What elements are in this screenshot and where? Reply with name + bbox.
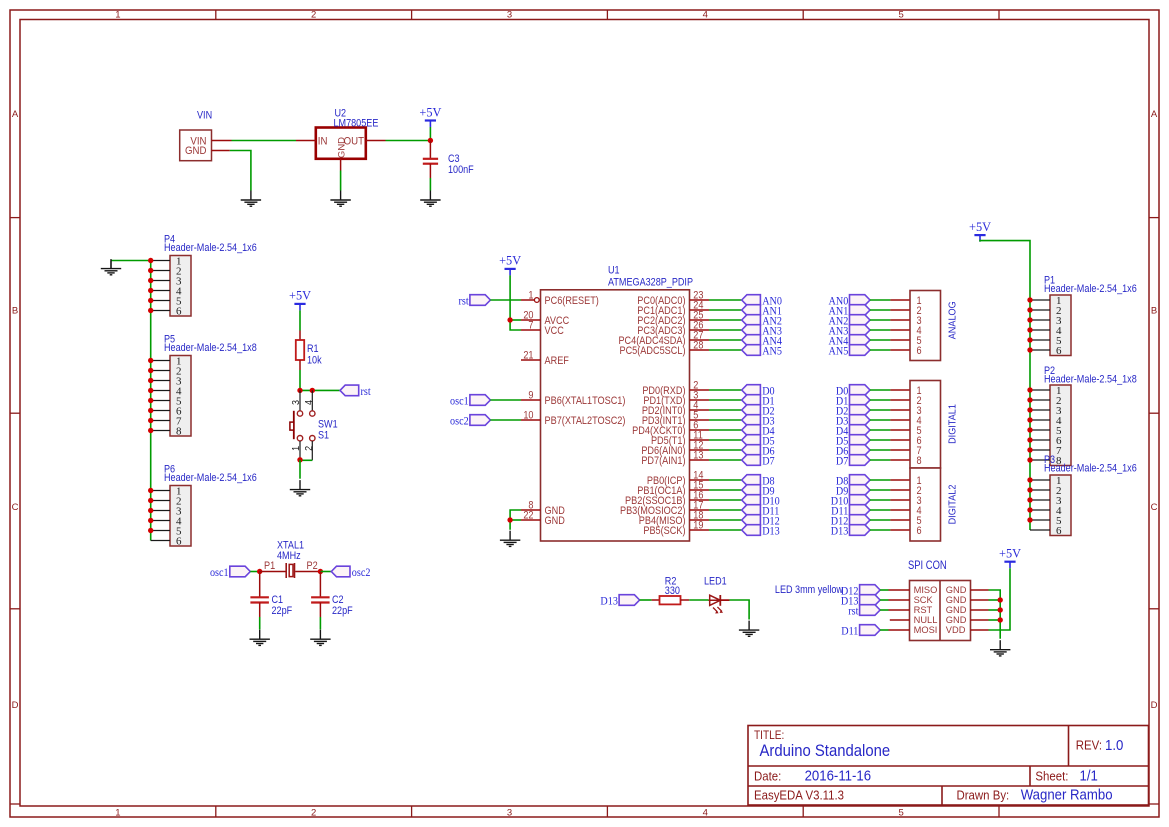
wire left header bus [150, 261, 152, 541]
pin stub R2 left [652, 599, 660, 601]
svg-text:ATMEGA328P_PDIP: ATMEGA328P_PDIP [608, 277, 693, 289]
svg-text:osc1: osc1 [450, 395, 469, 408]
pin stub AN1 connector [890, 309, 910, 311]
svg-text:6: 6 [917, 345, 922, 357]
wire AVCC branch [510, 319, 521, 321]
net flag D3 (to connector) [836, 415, 870, 428]
pin stub D1 connector [890, 399, 910, 401]
svg-text:RST: RST [914, 605, 933, 615]
svg-text:GND: GND [185, 144, 207, 157]
connector SPI CON [910, 581, 971, 641]
pin 15 PB1(OC1A) [637, 480, 709, 497]
svg-text:SPI CON: SPI CON [908, 559, 947, 572]
net flag D10 (to connector) [831, 495, 870, 508]
svg-text:D: D [12, 700, 19, 711]
capacitor C1 [250, 597, 269, 602]
title block [748, 726, 1149, 806]
svg-text:D13: D13 [831, 525, 849, 538]
svg-text:Header-Male-2.54_1x8: Header-Male-2.54_1x8 [1044, 374, 1137, 386]
svg-text:PB5(SCK): PB5(SCK) [643, 525, 685, 537]
column numbers bottom [115, 807, 903, 818]
wire P4 pin1 to ground [111, 260, 151, 262]
pin stub AN3 connector [890, 329, 910, 331]
connector ANALOG [910, 291, 941, 361]
svg-text:DIGITAL1: DIGITAL1 [946, 404, 957, 444]
svg-text:VDD: VDD [946, 625, 966, 635]
svg-text:rst: rst [361, 386, 371, 399]
pin stub RST [889, 609, 910, 611]
net flag D2 (from U1) [742, 405, 775, 418]
svg-text:3: 3 [507, 807, 512, 818]
junction crystal P1 [257, 569, 262, 574]
svg-text:LED 3mm yellow: LED 3mm yellow [775, 584, 844, 596]
wire +5V header bus [980, 241, 1030, 530]
wire AN2 to connector [870, 319, 890, 321]
wire node to C3 [429, 141, 431, 159]
net flag AN4 (to connector) [829, 335, 870, 348]
svg-text:1: 1 [528, 290, 533, 302]
svg-text:21: 21 [523, 350, 534, 362]
ground SPI [990, 640, 1010, 656]
wire AN4 to connector [870, 339, 890, 341]
svg-text:Sheet:: Sheet: [1035, 769, 1068, 784]
net flag osc2 (crystal) [331, 566, 370, 579]
pin 28 PC5(ADC5SCL) [619, 340, 709, 357]
wire U1 to net D12 [709, 519, 742, 521]
svg-text:VCC: VCC [545, 325, 564, 337]
junctions P5 pins [148, 358, 153, 433]
svg-text:NULL: NULL [914, 615, 938, 625]
wire D0 to connector [870, 389, 890, 391]
net flag D5 (to connector) [836, 435, 870, 448]
wire P1 to crystal [260, 571, 286, 573]
pin 13 PD7(AIN1) [641, 450, 709, 467]
net flag D12 (to connector) [831, 515, 870, 528]
net flag D4 (from U1) [742, 425, 776, 438]
pin stub R2 right [681, 599, 690, 601]
svg-text:MOSI: MOSI [914, 625, 938, 635]
svg-text:3: 3 [507, 9, 512, 20]
wire D3 to connector [870, 419, 890, 421]
net flag AN1 (to connector) [829, 305, 870, 318]
wire U1 to net D9 [709, 489, 742, 491]
wire R2 to LED1 [689, 599, 708, 601]
svg-text:D13: D13 [762, 525, 780, 538]
svg-text:D13: D13 [600, 595, 618, 608]
svg-text:P2: P2 [307, 560, 319, 572]
wire GND22 branch [510, 519, 521, 521]
net flag AN5 (to connector) [829, 345, 870, 358]
header P3 [1030, 475, 1071, 537]
net flag AN0 (to connector) [829, 295, 870, 308]
row ticks right [1149, 218, 1159, 804]
wire U1 to net D10 [709, 499, 742, 501]
svg-text:8: 8 [917, 455, 922, 467]
ground C3 [420, 191, 440, 207]
wire U1 to net AN1 [709, 309, 742, 311]
wire U1 to net AN2 [709, 319, 742, 321]
svg-text:C: C [1151, 502, 1158, 513]
svg-text:VIN: VIN [197, 110, 212, 122]
pin stub MOSI [889, 629, 910, 631]
junctions P3 pins [1027, 477, 1032, 522]
svg-text:10k: 10k [307, 355, 322, 367]
svg-text:+5V: +5V [999, 546, 1021, 560]
svg-text:osc1: osc1 [210, 567, 229, 580]
pin U2 IN stub [296, 140, 316, 142]
svg-text:4: 4 [303, 400, 315, 405]
wire SPI GND bus [989, 590, 1001, 639]
net flag D10 (from U1) [742, 495, 780, 508]
junctions P2 pins [1027, 387, 1032, 462]
svg-text:GND: GND [946, 585, 967, 595]
pin 19 PB5(SCK) [643, 520, 709, 537]
net flag AN4 (from U1) [742, 335, 783, 348]
wire U1 to net D4 [709, 429, 742, 431]
pin stub NULL [890, 619, 910, 621]
wire R1 to rst node [299, 360, 301, 370]
junction rst node [297, 388, 302, 393]
net flag osc1 (U1) [450, 395, 490, 408]
power +5V (U1 AVCC) [499, 253, 521, 275]
wire SPI GND row 620 [989, 619, 1001, 621]
net flag D12 (from U1) [742, 515, 780, 528]
svg-text:4: 4 [703, 807, 708, 818]
switch SW1 [290, 390, 315, 460]
wire +5V to node [429, 127, 431, 141]
svg-text:2: 2 [311, 807, 316, 818]
regulator U2 [316, 128, 366, 159]
column numbers top [115, 9, 903, 20]
svg-text:B: B [12, 306, 18, 317]
junctions P4 pins [148, 258, 153, 313]
wire osc1 to P1 node [250, 571, 259, 573]
svg-text:AN5: AN5 [762, 345, 782, 358]
wire U1 to net D7 [709, 459, 742, 461]
row letters left [12, 109, 19, 711]
crystal XTAL1 [286, 563, 294, 578]
svg-text:1: 1 [115, 807, 120, 818]
svg-text:D11: D11 [841, 625, 858, 638]
net flag D6 (to connector) [836, 445, 870, 458]
svg-text:A: A [12, 109, 19, 120]
pin stub D5 connector [890, 439, 910, 441]
svg-text:GND: GND [337, 137, 348, 158]
wire +5V to R1 [299, 310, 301, 330]
svg-text:19: 19 [693, 520, 704, 532]
pin 11 PD5(T1) [651, 430, 709, 447]
wire SW1 pin2 to pin1 node [300, 459, 312, 461]
svg-text:6: 6 [1056, 525, 1062, 537]
svg-text:6: 6 [176, 305, 182, 317]
net flag D13 (SPI) [841, 595, 880, 608]
svg-text:2: 2 [303, 446, 315, 451]
connector DIGITAL2 [910, 468, 941, 541]
svg-text:IN: IN [318, 135, 328, 148]
wire U1 to net D13 [709, 529, 742, 531]
wire D2 to connector [870, 409, 890, 411]
pin 24 PC1(ADC1) [637, 300, 709, 317]
svg-text:5: 5 [898, 9, 903, 20]
wire D7 to connector [870, 459, 890, 461]
net flag D8 (to connector) [836, 475, 870, 488]
wire rst to RST [880, 609, 888, 611]
svg-text:GND: GND [946, 605, 967, 615]
svg-text:28: 28 [693, 340, 704, 352]
wire C3 to ground [429, 164, 431, 178]
net flag D1 (to connector) [836, 395, 870, 408]
pin stub D13 connector [890, 529, 910, 531]
wire C1 to ground [259, 603, 261, 618]
wire SW1 to ground [299, 460, 301, 479]
wire U1 to net AN5 [709, 349, 742, 351]
column ticks top [216, 10, 999, 20]
pin 17 PB3(MOSIOC2) [620, 500, 709, 517]
pin stub D8 connector [890, 479, 910, 481]
pin 8 GND [521, 500, 565, 517]
svg-text:A: A [1151, 109, 1158, 120]
svg-text:REV:: REV: [1076, 738, 1102, 753]
svg-text:Drawn By:: Drawn By: [957, 788, 1010, 803]
pin stub SPI right y630 [971, 629, 989, 631]
wire U1 to net D1 [709, 399, 742, 401]
net flag D13 (to connector) [831, 525, 870, 538]
junction AVCC node [507, 317, 512, 322]
pin VIN GND stub [212, 150, 230, 152]
wire D4 to connector [870, 429, 890, 431]
net flag AN2 (to connector) [829, 315, 870, 328]
pin 26 PC3(ADC3) [637, 320, 709, 337]
junction SPI GND 600 [998, 597, 1003, 602]
wire U1 to net D0 [709, 389, 742, 391]
resistor R1 [296, 340, 304, 360]
pin stub D6 connector [890, 449, 910, 451]
pin 14 PB0(ICP) [647, 470, 709, 487]
svg-text:S1: S1 [318, 430, 330, 442]
svg-text:6: 6 [176, 535, 182, 547]
svg-text:C: C [12, 502, 19, 513]
pin stub D7 connector [890, 459, 910, 461]
wire D5 to connector [870, 439, 890, 441]
svg-text:Date:: Date: [754, 769, 781, 784]
net flag AN3 (from U1) [742, 325, 782, 338]
svg-text:osc2: osc2 [450, 415, 469, 428]
svg-text:22: 22 [523, 510, 534, 522]
wire AN3 to connector [870, 329, 890, 331]
row letters right [1151, 109, 1158, 711]
svg-text:AN5: AN5 [829, 345, 849, 358]
row ticks left [10, 218, 20, 804]
svg-text:Header-Male-2.54_1x6: Header-Male-2.54_1x6 [164, 242, 257, 254]
net flag D7 (from U1) [742, 455, 776, 468]
svg-text:8: 8 [176, 425, 182, 437]
svg-text:5: 5 [898, 807, 903, 818]
svg-text:U1: U1 [608, 265, 620, 277]
wire P2 node to C2 [319, 572, 321, 598]
svg-text:GND: GND [946, 615, 967, 625]
connector DIGITAL1 [910, 381, 941, 469]
svg-text:6: 6 [1056, 345, 1062, 357]
wire SPI GND row 610 [989, 609, 1001, 611]
svg-text:Header-Male-2.54_1x6: Header-Male-2.54_1x6 [1044, 463, 1137, 475]
pin stub D2 connector [890, 409, 910, 411]
capacitor C2 [311, 597, 330, 602]
svg-text:Wagner Rambo: Wagner Rambo [1021, 786, 1113, 803]
junction GND node [507, 517, 512, 522]
svg-text:1/1: 1/1 [1080, 767, 1098, 784]
svg-text:4: 4 [703, 9, 708, 20]
wire D12 to MISO [880, 589, 888, 591]
wire osc1 to U1 pin9 [490, 399, 521, 401]
svg-text:100nF: 100nF [448, 164, 474, 176]
pin stub SPI right y600 [971, 599, 989, 601]
svg-text:+5V: +5V [289, 288, 311, 302]
net flag rst (SPI) [848, 605, 880, 618]
ground U2 [330, 191, 350, 207]
svg-text:R1: R1 [307, 343, 319, 355]
svg-text:rst: rst [848, 605, 858, 618]
net flag AN3 (to connector) [829, 325, 870, 338]
wire VIN GND [230, 151, 251, 191]
wire D11 to MOSI [880, 629, 888, 631]
pin stub AN2 connector [890, 319, 910, 321]
wire U1 GND pins to ground [510, 510, 521, 530]
svg-text:3: 3 [290, 400, 302, 405]
pin lead LED1 [709, 599, 730, 601]
svg-text:DIGITAL2: DIGITAL2 [946, 485, 957, 525]
junctions P1 pins [1027, 297, 1032, 352]
wire U1 to net D3 [709, 419, 742, 421]
net flag D0 (to connector) [836, 385, 870, 398]
svg-text:D7: D7 [762, 455, 775, 468]
ground P4 [110, 261, 112, 269]
net flag D8 (from U1) [742, 475, 775, 488]
wire AN5 to connector [870, 349, 890, 351]
wire D11 to connector [870, 509, 890, 511]
header P2 [1030, 385, 1071, 467]
pin stub SPI right y620 [971, 619, 989, 621]
net flag D12 (SPI) [841, 585, 880, 598]
svg-text:TITLE:: TITLE: [754, 729, 784, 742]
svg-text:osc2: osc2 [352, 567, 371, 580]
svg-text:GND: GND [946, 595, 967, 605]
pin 18 PB4(MISO) [639, 510, 709, 527]
pin 27 PC4(ADC4SDA) [618, 330, 709, 347]
pin 4 PD2(INT0) [642, 400, 709, 417]
column ticks bottom [216, 806, 999, 817]
pin stub MISO [889, 589, 910, 591]
wire U1 to net D5 [709, 439, 742, 441]
diode LED1 [710, 595, 723, 614]
pin 21 AREF [521, 350, 569, 367]
pin stub D12 connector [890, 519, 910, 521]
net flag D9 (to connector) [836, 485, 870, 498]
pin 9 PB6(XTAL1TOSC1) [521, 390, 625, 407]
pin 2 PD0(RXD) [642, 380, 709, 397]
wire D1 to connector [870, 399, 890, 401]
wire U1 to net D6 [709, 449, 742, 451]
svg-text:P1: P1 [264, 560, 276, 572]
svg-text:4MHz: 4MHz [277, 550, 301, 562]
wire U1 to net AN0 [709, 299, 742, 301]
wire LED1 to ground [729, 600, 749, 620]
pin 6 PD4(XCKT0) [632, 420, 709, 437]
ground C2 [310, 630, 330, 646]
pin stub D3 connector [890, 419, 910, 421]
svg-text:rst: rst [459, 295, 469, 308]
net flag D9 (from U1) [742, 485, 775, 498]
wire D8 to connector [870, 479, 890, 481]
junction SPI GND 620 [998, 617, 1003, 622]
power +5V (regulator output) [419, 105, 441, 127]
wire U2 GND to ground [340, 171, 342, 191]
svg-text:MISO: MISO [914, 585, 938, 595]
svg-text:EasyEDA V3.11.3: EasyEDA V3.11.3 [754, 788, 844, 803]
pin stub LED1 right [720, 599, 730, 601]
svg-text:2: 2 [311, 9, 316, 20]
svg-text:ANALOG: ANALOG [946, 301, 957, 339]
pin 5 PD3(INT1) [642, 410, 709, 427]
svg-text:22pF: 22pF [332, 605, 353, 617]
svg-text:PD7(AIN1): PD7(AIN1) [641, 455, 685, 467]
svg-text:Header-Male-2.54_1x6: Header-Male-2.54_1x6 [1044, 283, 1137, 295]
net flag D11 (from U1) [742, 505, 780, 518]
net flag D7 (to connector) [836, 455, 870, 468]
pin stub AN4 connector [890, 339, 910, 341]
net flag D13 (from U1) [742, 525, 780, 538]
svg-text:PC6(RESET): PC6(RESET) [545, 295, 599, 307]
net flag D11 (to connector) [831, 505, 870, 518]
capacitor C3 [423, 159, 438, 164]
wire D10 to connector [870, 499, 890, 501]
header P5 [151, 355, 191, 437]
wire D6 to connector [870, 449, 890, 451]
svg-text:6: 6 [917, 525, 922, 537]
wire P2 to osc2 [320, 571, 331, 573]
svg-text:LM7805EE: LM7805EE [334, 118, 379, 130]
wire +5V to AVCC/VCC [510, 275, 521, 330]
pin stub AN0 connector [890, 299, 910, 301]
wire U1 to net D8 [709, 479, 742, 481]
svg-text:PB7(XTAL2TOSC2): PB7(XTAL2TOSC2) [545, 415, 626, 427]
wire D12 to connector [870, 519, 890, 521]
net flag osc2 (U1) [450, 415, 490, 428]
pin stub D9 connector [890, 489, 910, 491]
pin 22 GND [521, 510, 565, 527]
pin 12 PD6(AIN0) [641, 440, 709, 457]
svg-text:SCK: SCK [914, 595, 934, 605]
svg-text:330: 330 [665, 585, 681, 597]
net flag AN1 (from U1) [742, 305, 782, 318]
wire rst to U1 pin1 [490, 299, 521, 301]
net flag D5 (from U1) [742, 435, 775, 448]
resistor R2 [660, 596, 681, 604]
svg-text:+5V: +5V [969, 220, 991, 234]
net flag AN0 (from U1) [742, 295, 782, 308]
svg-text:9: 9 [528, 390, 533, 402]
ground VIN [241, 191, 261, 207]
pin stub D0 connector [890, 389, 910, 391]
wire U1 to net D11 [709, 509, 742, 511]
svg-text:PC5(ADC5SCL): PC5(ADC5SCL) [619, 345, 685, 357]
svg-text:Arduino Standalone: Arduino Standalone [760, 742, 891, 760]
svg-text:1.0: 1.0 [1105, 736, 1123, 753]
pin stub D11 connector [890, 509, 910, 511]
pin 25 PC2(ADC2) [637, 310, 709, 327]
net flag rst [340, 385, 371, 398]
svg-text:+5V: +5V [499, 253, 521, 267]
wire D13 to R2 [640, 599, 652, 601]
